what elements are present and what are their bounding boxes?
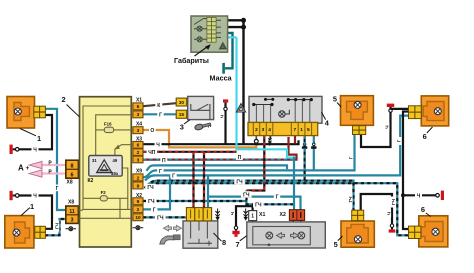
wire ГЧ X2:10 to item8 pin1 (striped) [143, 216, 187, 218]
wire ГЧ striped-B to lamp5-bottom [146, 181, 354, 211]
ground screw mark left [66, 227, 77, 231]
indicator unit 7 [247, 210, 325, 248]
svg-text:ЧП: ЧП [148, 150, 156, 156]
wire Ч lamp1-bottom ground G2 (black) [19, 196, 52, 229]
svg-text:5: 5 [334, 240, 338, 249]
wire П X3:3 to hazard pin7 (darkred/teal striped zigzag) [143, 137, 297, 160]
wire Г branch to item7 X2:2 pin (teal) [208, 175, 301, 210]
svg-text:1: 1 [30, 202, 34, 211]
wire cyan from cluster [216, 36, 237, 38]
svg-text:Ч: Ч [33, 148, 37, 154]
svg-text:2: 2 [137, 150, 140, 156]
wire Г lamp1-top to X8:11 (teal) [45, 109, 67, 210]
wire hazard pin5 stem (black/teal striped) [304, 136, 306, 181]
wire ЧП branch to item8 pin1 (black/red striped) [192, 152, 194, 208]
svg-text:15: 15 [179, 112, 185, 118]
wire ГЧ X2:9 to item7 pin (striped) [143, 200, 247, 202]
svg-text:К2: К2 [88, 178, 94, 184]
svg-text:ГЧ: ГЧ [255, 202, 262, 208]
left/right arrows icon [164, 225, 172, 231]
lamp 5 top (side repeater left) [341, 96, 374, 135]
svg-text:П: П [238, 155, 242, 161]
lamp 5 bottom [341, 210, 374, 247]
svg-text:4: 4 [268, 127, 271, 133]
wire lamp5-top black to ground G3 [361, 107, 391, 147]
Г near item7 [274, 193, 280, 199]
svg-text:8: 8 [222, 238, 226, 247]
Ч rotated lamp5-top gnd [383, 123, 390, 131]
svg-text:2: 2 [137, 175, 140, 181]
arrow A upper [29, 161, 42, 168]
svg-text:Габариты: Габариты [174, 56, 209, 65]
ГЧ near item7 [253, 201, 264, 207]
ГЧ rotated bottom-left [53, 221, 60, 232]
Г x1:3 [157, 111, 163, 117]
svg-text:1: 1 [251, 214, 254, 220]
svg-text:6: 6 [137, 143, 140, 149]
mounting block 2 [79, 97, 133, 247]
block right pin column [133, 98, 143, 222]
wire lamp6-top to ground G3 (black) [391, 108, 409, 110]
О [149, 127, 156, 133]
svg-text:3: 3 [137, 157, 140, 163]
Ч rotated ignition gnd [218, 113, 225, 121]
label 1 top [20, 129, 36, 136]
wire ГЧ striped-A to lamp6-bottom [145, 183, 409, 235]
body-ground chevron near item8 [215, 209, 219, 220]
Ч x3:6 [155, 141, 162, 147]
svg-text:9: 9 [137, 183, 140, 189]
wire ЧК hazard pin3 stem (black/red striped) [247, 136, 265, 191]
wire ГЧ lamp1-bottom to X8:3 (teal/black striped) [45, 219, 67, 235]
svg-text:Х8: Х8 [67, 180, 73, 186]
lamp 6 top (right front) [409, 96, 449, 126]
svg-text:Х1: Х1 [259, 212, 265, 218]
svg-text:6: 6 [71, 172, 74, 178]
Г y170 [157, 168, 163, 174]
ГЧ mid [241, 191, 252, 197]
instrument cluster (Габариты) [191, 16, 228, 52]
body-ground chevron near X1 [244, 209, 248, 220]
ГЧ rotated lamp5-bottom [347, 194, 354, 205]
svg-text:10: 10 [135, 215, 141, 221]
svg-text:49a: 49a [111, 171, 119, 176]
wire Ч ground bus X3:6 (black) [143, 140, 299, 144]
svg-text:Х2: Х2 [280, 212, 286, 218]
svg-text:О: О [150, 128, 154, 134]
svg-text:1: 1 [300, 127, 303, 133]
stalk icon [160, 236, 175, 244]
wire lamp5-bottom black to ground G5 [361, 194, 392, 224]
svg-text:Г: Г [159, 169, 162, 175]
lamp 6 bottom [409, 216, 448, 247]
wire О X4:3 to hazard pin2 (orange) [143, 130, 256, 147]
wire Г y175 to lamp6-top (teal) [145, 116, 409, 181]
svg-text:П: П [162, 158, 166, 164]
junction dot A [241, 18, 246, 23]
wire black chain lamp6-top to lamp6-bottom with ground G4 [403, 112, 409, 230]
svg-text:6: 6 [421, 205, 425, 214]
connector tick hazard pin5 wire [302, 146, 307, 149]
wire Г X1:3 to ignition 15 [143, 113, 176, 115]
svg-text:+: + [26, 165, 30, 172]
svg-text:Масса: Масса [210, 74, 233, 83]
svg-text:ГЧ: ГЧ [55, 222, 61, 229]
svg-text:6: 6 [423, 132, 427, 141]
svg-text:9: 9 [137, 199, 140, 205]
X1 white pin [249, 211, 257, 221]
ground screw mark right [133, 226, 144, 230]
connector tick hazard pin1 wire [311, 146, 316, 149]
ГЧ striped-A second [234, 178, 245, 184]
relay K2 [89, 156, 122, 177]
wire cyan from cluster down to item7 X2:1 [237, 37, 295, 157]
hazard switch 4 body [236, 96, 322, 123]
wire ЧП X3:2 (black/red striped) [143, 151, 237, 153]
fuse F16 [104, 127, 113, 132]
ЧП [147, 149, 158, 155]
svg-text:3: 3 [137, 112, 140, 118]
cluster wires black to junction bus [216, 19, 244, 144]
lamp 1 bottom-left turn signal [5, 216, 46, 248]
svg-text:ГЧ: ГЧ [157, 216, 164, 222]
svg-text:Х8: Х8 [68, 200, 74, 206]
svg-text:ГЧ: ГЧ [148, 199, 155, 205]
svg-text:7: 7 [293, 127, 296, 133]
connector X8 pins 11/3 [66, 206, 79, 224]
svg-text:1: 1 [37, 134, 41, 143]
wire Масса dark teal [216, 33, 233, 68]
svg-text:3: 3 [262, 127, 265, 133]
svg-text:Ч: Ч [417, 194, 421, 200]
svg-text:2: 2 [255, 127, 258, 133]
svg-text:ГЧ: ГЧ [147, 185, 154, 191]
svg-text:5: 5 [333, 94, 337, 103]
lamp 1 top-left turn signal [7, 97, 45, 129]
svg-text:ГЧ: ГЧ [391, 198, 397, 205]
arrow A lower [29, 170, 42, 177]
ignition switch 3 [176, 96, 213, 130]
Г rotated lamp5-top [347, 154, 354, 162]
fuse F2 [100, 196, 107, 201]
svg-text:Г: Г [397, 139, 403, 142]
Ч rotated item7 gnd [229, 210, 236, 218]
svg-text:Г: Г [159, 112, 162, 118]
ground G1 red bar [10, 145, 13, 154]
contact arrowhead [115, 145, 120, 150]
Ч lamp6-bottom gnd [415, 192, 422, 198]
X2 red pins [289, 210, 304, 221]
wire hazard pin1 stem (teal) [313, 136, 315, 171]
hazard switch 4 connector strip [248, 122, 318, 135]
svg-text:7: 7 [236, 240, 240, 249]
wire teal upper branch y166 [147, 165, 288, 170]
Ч g2 [32, 192, 39, 199]
ГЧ x2:9 [146, 198, 157, 204]
svg-text:ГЧ: ГЧ [243, 193, 250, 199]
connector X8 pins 8/6 [66, 160, 79, 178]
svg-text:5: 5 [307, 127, 310, 133]
hazard triangle icon [236, 104, 245, 112]
wire colour letters with white halo [32, 102, 423, 232]
body-ground chevron hazard pin4 [268, 137, 272, 146]
wire Г X2:2 elbow up (teal) [143, 175, 170, 209]
svg-text:Г: Г [153, 208, 156, 214]
svg-text:3: 3 [71, 218, 74, 224]
ГЧ striped-A [145, 184, 156, 190]
svg-text:Г: Г [348, 156, 354, 159]
svg-text:6: 6 [137, 104, 140, 110]
svg-text:Г: Г [172, 173, 175, 179]
wire Р pink upper to X8:8 [41, 164, 67, 166]
svg-text:А: А [18, 163, 24, 172]
svg-text:Г: Г [276, 195, 279, 201]
turn signal switch 8 [160, 208, 218, 249]
wire Р pink lower to X8:6 [41, 172, 67, 174]
item7 red pin stems [253, 220, 301, 226]
ignition ground G7 [223, 99, 228, 102]
key icon [194, 122, 211, 131]
wire ЧП branch to item8 pin2 (black/red striped) [203, 152, 205, 208]
svg-text:49: 49 [113, 158, 118, 163]
svg-text:30: 30 [179, 100, 185, 106]
wire item7 X1 pin to ground G6 [236, 206, 253, 231]
svg-text:8: 8 [71, 163, 74, 169]
Г y175 [170, 172, 176, 178]
svg-text:3: 3 [180, 123, 184, 132]
svg-text:31: 31 [92, 158, 97, 163]
svg-text:F16: F16 [104, 122, 112, 127]
svg-text:11: 11 [69, 209, 75, 215]
К [155, 102, 162, 108]
Ч rotated lamp5-bottom gnd [385, 210, 392, 218]
wire К X1:6 to ignition 30 [143, 103, 176, 106]
svg-text:Ч: Ч [33, 194, 37, 200]
label 1 bottom [21, 208, 30, 216]
svg-text:3: 3 [137, 128, 140, 134]
svg-text:Ч: Ч [156, 142, 160, 148]
Г x2:2 [151, 206, 157, 212]
Г left vertical [54, 185, 60, 192]
П right [236, 154, 243, 160]
Ч g1 [32, 146, 39, 153]
junction dot B [241, 25, 246, 30]
svg-text:2: 2 [137, 207, 140, 213]
П left [160, 156, 167, 162]
svg-text:ГЧ: ГЧ [348, 196, 354, 203]
ГЧ rotated lamp6-bottom [390, 197, 397, 208]
ГЧ x2:10 [155, 214, 166, 220]
svg-text:2: 2 [62, 95, 66, 104]
svg-text:F2: F2 [101, 190, 107, 195]
wire Ч lamp1-top to ground G1 (black) [19, 115, 52, 149]
hazard pin4 stub [270, 136, 272, 140]
svg-text:Г: Г [56, 186, 59, 192]
svg-text:ГЧ: ГЧ [236, 179, 243, 185]
Г rotated lamp6-top [395, 137, 402, 145]
wire Г X9:2 long line to lamp5-top (teal) [143, 135, 355, 178]
